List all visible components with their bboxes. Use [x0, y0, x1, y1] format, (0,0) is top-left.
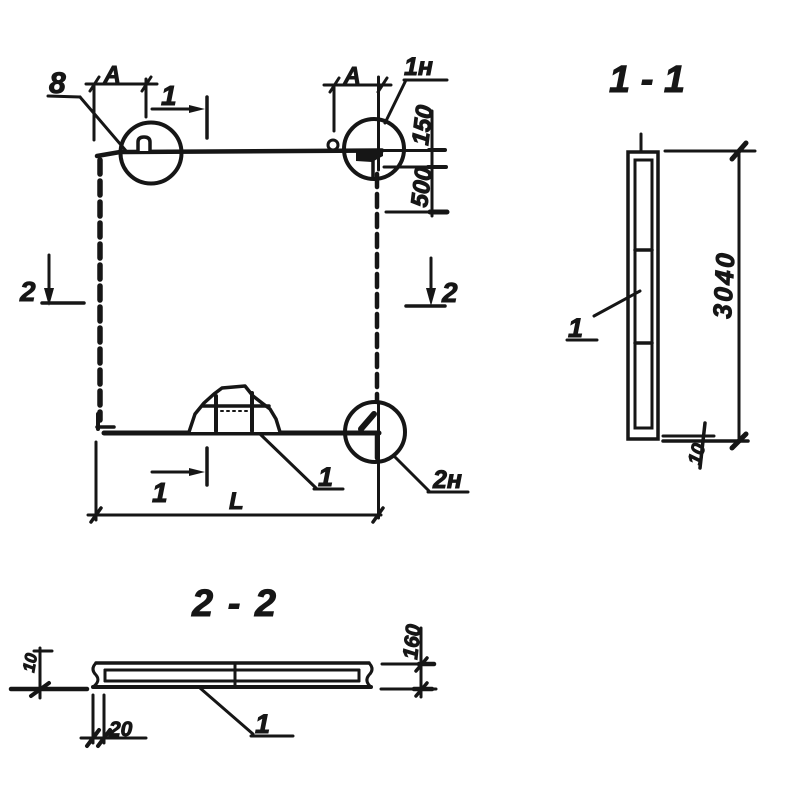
dimension A (top-left): extension lines	[93, 86, 96, 140]
section 2-2 bar right wavy end	[367, 663, 372, 687]
dimension 3040: slash ticks	[732, 143, 746, 159]
dimension L: dimension line	[88, 514, 381, 517]
svg-text:160: 160	[399, 623, 426, 661]
section marker 1 top: arrow line	[152, 108, 198, 111]
dimension 10 (section 2-2 left): vertical line	[39, 648, 42, 698]
dimension 150/500 stack: slash ticks	[429, 148, 445, 152]
svg-text:20: 20	[108, 718, 133, 741]
section 1-1 panel inner rect	[635, 160, 652, 428]
embedded part inner horizontal line	[203, 404, 269, 408]
dimension A (top-right): extension line	[333, 87, 336, 131]
dimension 3040: vertical dimension line	[738, 151, 741, 441]
dimension 20 (section 2-2): extension lines	[92, 695, 95, 743]
section 2-2 inner right end	[358, 670, 361, 681]
svg-text:L: L	[229, 488, 244, 515]
dimension A (top-left): line	[86, 83, 157, 86]
section 2-2 bar left wavy end	[93, 663, 98, 687]
section 2-2 inner top line	[105, 669, 359, 672]
svg-text:3040: 3040	[707, 250, 741, 319]
section 2-2 inner bottom line	[105, 680, 359, 683]
leader 1 for embedded part	[260, 434, 316, 488]
section marker 1 top: end bar	[205, 97, 209, 138]
panel right edge (dashed hidden line)	[375, 174, 380, 400]
section 2-2 middle divider	[234, 664, 237, 686]
dimension A (top-right): tick marks	[330, 78, 339, 92]
svg-text:2н: 2н	[432, 466, 462, 494]
svg-text:1: 1	[255, 709, 270, 739]
dimension 10 (section 1-1 bottom): tick	[700, 423, 705, 468]
section marker 2 left: end bar	[42, 301, 84, 305]
embedded part stipple	[221, 410, 249, 412]
dimension 160 (section 2-2 right): ticks	[416, 658, 427, 671]
section marker 2 right: arrow line	[430, 258, 433, 296]
svg-text:1: 1	[318, 462, 333, 492]
dimension L: extension line left	[95, 442, 98, 520]
section 2-2 inner left end	[104, 670, 107, 681]
dimension 160 (section 2-2 right): extension lines	[382, 663, 433, 666]
section marker 2 right: end bar	[406, 304, 445, 308]
section 2-2 bar top edge	[96, 661, 369, 665]
section marker 2 left: arrow line	[48, 255, 51, 294]
svg-text:1: 1	[161, 80, 177, 111]
embedded part inner vertical line a	[214, 396, 218, 431]
svg-text:A: A	[343, 62, 361, 88]
section 1-1 divider b	[635, 341, 652, 345]
svg-text:10: 10	[19, 651, 41, 673]
dimension A (top-right): line	[324, 84, 391, 87]
detail circle 1n (top-right)	[344, 119, 404, 179]
dimension 150/500 stack: lower tick lines	[384, 166, 439, 169]
section 1-1 panel outer rect	[628, 152, 658, 439]
section 2-2 leader 1	[200, 688, 253, 734]
dimension 3040: top extension line	[665, 150, 755, 153]
dimension 10 (section 2-2 left): arrow	[31, 683, 49, 696]
dimension 20 (section 2-2): dimension line	[81, 737, 146, 740]
svg-text:150: 150	[407, 103, 439, 147]
corner notch detail in circle 1n	[356, 150, 383, 162]
svg-text:10: 10	[685, 441, 711, 467]
svg-text:2: 2	[441, 277, 458, 308]
lifting loop 1 (plan)	[138, 137, 150, 151]
lifting loop 2 (plan)	[328, 140, 338, 150]
dimension 160 (section 2-2 right): vertical line	[420, 628, 423, 697]
section 1-1 top tick	[640, 134, 643, 151]
svg-text:1н: 1н	[404, 53, 433, 81]
panel top edge extension to 150-dim	[382, 149, 441, 152]
panel bottom-left corner step	[96, 414, 100, 429]
panel left edge (dashed hidden line)	[97, 160, 103, 420]
section 1-1 divider a	[635, 248, 652, 252]
svg-text:1 - 1: 1 - 1	[609, 59, 685, 101]
svg-text:500: 500	[406, 165, 438, 209]
detail circle B (top-left)	[121, 123, 182, 184]
embedded part inner vertical line b	[250, 393, 254, 431]
detail circle 2n (bottom-right)	[345, 402, 405, 462]
dimension 150/500 stack: vertical dimension line	[431, 111, 434, 216]
svg-text:1: 1	[152, 477, 168, 508]
corner notch detail in circle 2n	[361, 414, 374, 429]
right vertical extension line through circles	[377, 77, 380, 170]
section marker 1 bottom: arrow line	[152, 471, 198, 474]
panel top edge	[97, 151, 382, 157]
embedded part outline (bottom center)	[189, 386, 280, 432]
dimension L: tick marks	[91, 508, 101, 522]
dimension A (top-left): tick marks	[90, 77, 99, 91]
panel bottom edge	[104, 431, 379, 436]
dimension 10 (section 1-1 bottom): extension lines	[663, 435, 714, 438]
dimension 20 (section 2-2): arrows	[87, 730, 99, 746]
dimension 10 (section 2-2 left): top tick	[34, 650, 52, 653]
dimension 10 (section 2-2 left): base line	[11, 687, 87, 692]
section 2-2 bar bottom edge	[93, 685, 371, 689]
svg-text:2: 2	[19, 276, 36, 307]
svg-text:2 - 2: 2 - 2	[191, 583, 278, 625]
svg-text:A: A	[103, 61, 121, 87]
section marker 1 bottom: end bar	[205, 448, 209, 485]
